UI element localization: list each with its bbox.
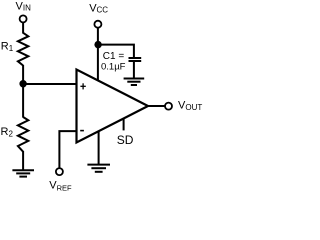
wire node A to R2 <box>22 84 24 118</box>
op-amp U1 <box>77 70 149 143</box>
shutdown pin SD stub <box>123 118 125 130</box>
op-amp plus input mark <box>80 83 85 89</box>
resistor R2 <box>18 117 28 152</box>
wire op-amp negative supply to ground <box>98 131 100 165</box>
svg-text:SD: SD <box>117 133 134 147</box>
terminal VREF <box>56 168 63 175</box>
ground below C1 <box>124 79 145 86</box>
wire VIN to R1 <box>22 23 24 34</box>
wire output <box>148 105 165 107</box>
resistor R1 <box>18 33 28 66</box>
node B junction dot on VCC wire <box>94 41 101 48</box>
terminal VOUT <box>165 103 172 110</box>
op-amp minus input mark <box>80 130 84 132</box>
wire node B to capacitor C1 <box>98 45 134 58</box>
terminal VCC <box>94 21 101 28</box>
wire C1 to ground <box>133 60 135 79</box>
ground below op-amp <box>87 165 110 172</box>
node A junction dot <box>19 80 26 87</box>
label C1 value <box>101 51 126 73</box>
svg-text:C1 =: C1 = <box>103 51 125 62</box>
terminal VIN <box>20 15 27 22</box>
ground below R2 <box>12 170 34 176</box>
wire node A to op-amp noninverting input <box>23 83 76 85</box>
wire R1 to node A <box>22 65 24 84</box>
wire R2 to ground <box>22 151 24 170</box>
capacitor C1 <box>129 58 142 61</box>
wire VCC to op-amp positive supply <box>97 28 99 81</box>
svg-text:0.1µF: 0.1µF <box>101 62 126 73</box>
wire VREF to op-amp inverting input <box>59 131 76 168</box>
